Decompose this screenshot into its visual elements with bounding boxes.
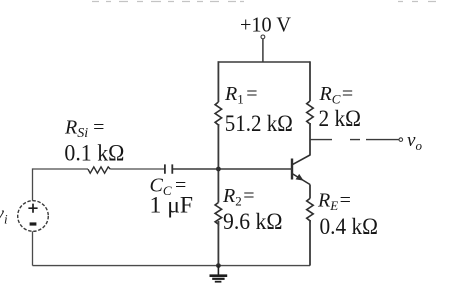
wire left branch lower (R2 to ground bus) (217, 221, 219, 266)
source vi minus sign (30, 222, 37, 225)
svg-text:51.2 kΩ: 51.2 kΩ (225, 111, 293, 137)
node vo terminal (399, 138, 403, 142)
wire supply stub (262, 39, 264, 62)
label vo (407, 130, 422, 153)
wire source bottom lead (32, 231, 34, 265)
transistor Q1 collector lead (292, 155, 310, 165)
wire emitter branch upper (emitter to RE) (309, 185, 311, 199)
svg-text:RC=: RC= (319, 83, 354, 107)
wire emitter branch lower (RE to ground bus) (309, 220, 311, 266)
resistor R2 (215, 203, 222, 225)
ground (210, 266, 228, 282)
svg-text:2 kΩ: 2 kΩ (319, 106, 362, 132)
svg-text:R1=: R1= (224, 83, 258, 107)
source vi circle (18, 201, 49, 232)
label R2 value 9.6 k ohm (223, 209, 283, 235)
wire output tap dashed to vo (310, 139, 399, 141)
node +10V supply terminal (261, 35, 265, 39)
source vi plus sign (28, 204, 37, 213)
wire input right segment (CC to base) (173, 168, 292, 170)
svg-text:vo: vo (407, 130, 422, 153)
label RSi (64, 117, 104, 142)
wire left branch middle (R1 to R2) (217, 124, 219, 203)
transistor Q1 base bar (291, 159, 293, 180)
label RE value 0.4 k ohm (320, 214, 379, 240)
svg-text:+10 V: +10 V (240, 13, 291, 37)
wire left branch upper (top bus to R1) (217, 61, 219, 102)
wire right branch lower (RC to collector) (309, 123, 311, 156)
transistor Q1 emitter lead (292, 174, 310, 185)
resistor RSi (88, 167, 110, 173)
svg-text:RSi=: RSi= (64, 117, 104, 142)
wire top bus (218, 61, 310, 63)
svg-text:R2=: R2= (222, 185, 255, 209)
resistor RC (307, 101, 314, 124)
junction node base wire with R1 R2 branch (216, 167, 221, 172)
svg-text:RE=: RE= (317, 190, 351, 214)
svg-text:9.6 kΩ: 9.6 kΩ (223, 209, 283, 235)
label R1 value 51.2 k ohm (225, 111, 293, 137)
resistor R1 (215, 102, 222, 125)
label +10 V (240, 13, 291, 37)
label vi (0, 204, 8, 227)
label CC (150, 175, 187, 199)
label R2 (222, 185, 255, 209)
wire bottom bus (33, 265, 311, 267)
resistor RE (307, 198, 314, 220)
wire source top lead (32, 168, 34, 200)
label RE (317, 190, 351, 214)
label R1 (224, 83, 258, 107)
svg-text:0.4 kΩ: 0.4 kΩ (320, 214, 379, 240)
wire input middle segment (RSi to CC) (110, 168, 164, 170)
wire right branch upper (top bus to RC) (309, 61, 311, 101)
label RC (319, 83, 354, 107)
svg-text:1 μF: 1 μF (150, 193, 194, 219)
svg-text:0.1 kΩ: 0.1 kΩ (64, 141, 124, 167)
svg-text:vi: vi (0, 204, 8, 227)
clipped text remnant at top edge (92, 1, 436, 3)
label RC value 2 k ohm (319, 106, 362, 132)
transistor Q1 emitter arrow (296, 174, 304, 181)
label RSi value 0.1 k ohm (64, 141, 124, 167)
label CC value 1 uF (150, 193, 194, 219)
wire input left segment (source to RSi) (33, 168, 89, 170)
junction node ground tap (216, 263, 221, 268)
capacitor CC (165, 164, 172, 173)
